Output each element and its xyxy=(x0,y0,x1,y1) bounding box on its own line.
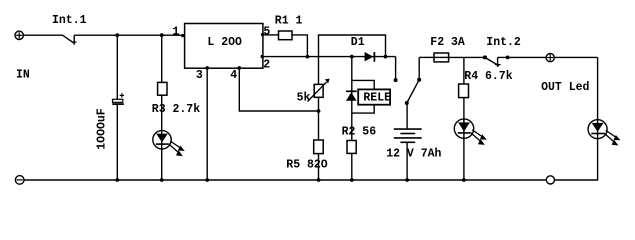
svg-text:R3 2.7k: R3 2.7k xyxy=(152,103,200,116)
terminal OUT- xyxy=(546,176,554,184)
svg-text:IN: IN xyxy=(16,68,30,81)
wire R5 to bottom rail xyxy=(318,154,320,180)
wire battery to bottom rail xyxy=(406,142,408,180)
node R4 LED bottom xyxy=(462,178,466,182)
svg-text:5k: 5k xyxy=(297,92,311,105)
fuse F2 xyxy=(434,53,449,62)
svg-text:R5 82O: R5 82O xyxy=(286,158,328,171)
resistor R1 xyxy=(279,31,293,40)
wire relay branch vertical xyxy=(351,57,353,140)
resistor R2 xyxy=(347,141,356,154)
svg-text:RELE: RELE xyxy=(363,92,391,105)
wire switch to OUT+ xyxy=(498,56,547,58)
wire R4 to LED xyxy=(463,98,465,128)
LED D4 (out) xyxy=(588,120,620,146)
node relay branch xyxy=(350,55,354,59)
potentiometer 5k xyxy=(308,79,330,102)
svg-text:3: 3 xyxy=(196,69,203,82)
battery 12V 7Ah xyxy=(394,129,422,142)
svg-text:1: 1 xyxy=(172,26,179,39)
svg-text:F2 3A: F2 3A xyxy=(430,36,465,49)
LED D2 (left) xyxy=(153,131,185,157)
wire right branch down xyxy=(597,57,599,119)
svg-text:R2 56: R2 56 xyxy=(342,125,377,138)
node pot bottom xyxy=(317,109,321,113)
svg-text:R4 6.7k: R4 6.7k xyxy=(464,70,512,83)
wire fuse to switch xyxy=(449,56,485,58)
node bypass/mid xyxy=(384,55,388,59)
svg-text:5: 5 xyxy=(263,26,270,39)
wire R3 branch upper xyxy=(161,35,163,82)
wire R4 branch xyxy=(463,57,465,84)
capacitor 1000uF xyxy=(112,93,124,104)
svg-text:OUT Led: OUT Led xyxy=(541,81,589,94)
wire fuse feed xyxy=(419,56,434,58)
resistor R4 xyxy=(459,84,469,98)
regulator U1 L200 box xyxy=(185,24,263,69)
relay contact arm xyxy=(407,80,419,103)
node cap junction xyxy=(115,33,119,37)
LED D3 (middle) xyxy=(454,119,487,145)
wire R2 to bottom rail xyxy=(351,153,353,180)
svg-text:Int.1: Int.1 xyxy=(52,14,87,27)
node R2 bottom xyxy=(350,178,354,182)
wire capacitor branch upper xyxy=(116,35,118,99)
diode D1 xyxy=(365,52,375,62)
svg-text:4: 4 xyxy=(230,69,237,82)
node R3 LED bottom xyxy=(160,178,164,182)
wire LED to bottom rail xyxy=(463,138,465,180)
relay RELE coil xyxy=(352,80,391,113)
switch Int.2 xyxy=(483,55,501,66)
wire pot to R5 xyxy=(318,97,320,140)
wire LED to bottom rail xyxy=(161,149,163,180)
node R3 junction xyxy=(160,33,164,37)
svg-text:2: 2 xyxy=(263,59,270,72)
wire top rail to L200 xyxy=(74,34,184,36)
wire D1 bypass loop xyxy=(319,35,386,84)
resistor R5 xyxy=(314,140,324,154)
wire R1 to corner down xyxy=(292,35,307,57)
wire OUT+ to right corner xyxy=(554,56,597,58)
node pin3 bottom xyxy=(205,178,209,182)
wire pin4 route xyxy=(239,68,318,111)
wire capacitor branch lower xyxy=(116,105,118,180)
node R1/pin2 xyxy=(306,55,310,59)
node R5 bottom xyxy=(317,178,321,182)
switch Int.1 xyxy=(63,35,77,45)
node battery bottom xyxy=(405,178,409,182)
wire right branch to bottom rail corner xyxy=(555,139,598,180)
svg-text:D1: D1 xyxy=(351,36,365,49)
relay contact riser from fuse wire xyxy=(418,57,420,79)
wire top rail left xyxy=(23,34,63,36)
svg-text:12 V 7Ah: 12 V 7Ah xyxy=(386,148,441,161)
wire pin3 down xyxy=(206,68,208,180)
svg-text:R1 1: R1 1 xyxy=(275,14,303,27)
wire R3 to LED xyxy=(161,95,163,131)
svg-text:Int.2: Int.2 xyxy=(486,36,521,49)
wire bottom rail xyxy=(24,179,546,181)
terminal OUT+ xyxy=(546,54,554,62)
diode flyback (relay) xyxy=(346,91,357,100)
svg-text:1OOOuF: 1OOOuF xyxy=(95,108,108,150)
resistor R3 xyxy=(158,82,167,95)
node cap bottom xyxy=(115,178,119,182)
terminal IN- xyxy=(15,176,24,185)
wire pin2 mid xyxy=(263,56,396,58)
terminal IN+ xyxy=(15,31,23,39)
relay contact NO riser xyxy=(395,57,397,81)
wire arm to battery xyxy=(406,103,408,128)
wire pin5 to R1 xyxy=(263,34,279,36)
svg-text:L 2OO: L 2OO xyxy=(207,36,242,49)
